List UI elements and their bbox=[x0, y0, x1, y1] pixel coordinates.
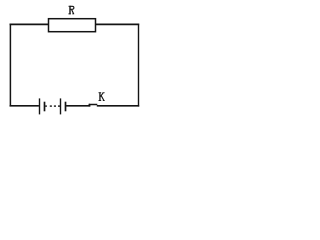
wire bottom-middle segment bbox=[66, 105, 90, 107]
battery dash 2 bbox=[54, 105, 56, 107]
wire top-left segment bbox=[10, 23, 49, 25]
wire left vertical bbox=[9, 24, 11, 107]
wire bottom-left segment bbox=[10, 105, 39, 107]
battery cell 1 long plate bbox=[39, 98, 41, 114]
background bbox=[0, 0, 146, 117]
battery cell 2 long plate bbox=[60, 98, 62, 114]
wire bottom-right segment bbox=[97, 105, 139, 107]
switch K lever bbox=[89, 104, 97, 106]
label R bbox=[68, 6, 74, 15]
battery cell 1 short plate bbox=[44, 102, 46, 112]
battery cell 2 short plate bbox=[65, 102, 67, 112]
battery dash 1 bbox=[50, 105, 52, 107]
label K bbox=[99, 92, 105, 101]
battery link stub left bbox=[45, 105, 47, 107]
wire right vertical bbox=[138, 24, 140, 107]
resistor R (box) bbox=[49, 19, 96, 32]
battery link stub right bbox=[58, 105, 60, 107]
wire top-right segment bbox=[96, 23, 140, 25]
switch K left contact bbox=[88, 104, 90, 107]
